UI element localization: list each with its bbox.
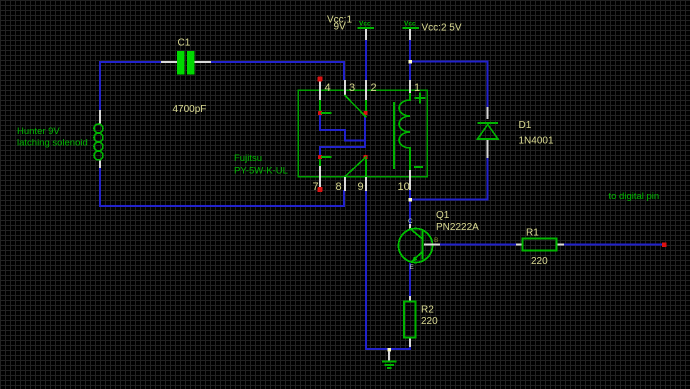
wire relay internal crossover B (pin2 contact to pin7 contact) [320, 114, 365, 156]
relay pin 3 lead [344, 80, 346, 95]
svg-text:PY-5W-K-UL: PY-5W-K-UL [234, 166, 288, 177]
resistor R1 leads [516, 244, 523, 246]
svg-text:10: 10 [398, 181, 410, 193]
wire left vertical down to solenoid [99, 61, 101, 111]
svg-text:Q1: Q1 [436, 210, 450, 221]
svg-text:3: 3 [349, 82, 355, 94]
svg-text:4700pF: 4700pF [173, 104, 207, 115]
svg-text:to digital pin: to digital pin [609, 191, 660, 202]
relay coil minus mark [414, 166, 423, 168]
resistor R1 body [523, 239, 557, 251]
svg-text:C1: C1 [178, 38, 191, 49]
transistor Q1 base lead [424, 244, 440, 246]
svg-text:D1: D1 [519, 120, 532, 131]
relay pin 7 lead [319, 159, 321, 166]
node end marker to digital pin [662, 242, 667, 247]
svg-text:E: E [410, 264, 415, 271]
relay pin 4 unconnected end marker [318, 77, 323, 82]
transistor Q1 base bar [421, 231, 423, 260]
relay coil left terminal line [393, 102, 395, 169]
node junction dot at pin 10 / D1 bottom [408, 198, 412, 202]
relay switch 2 contact dots [318, 155, 322, 159]
wire relay internal crossover A (pin4 contact to pin9 side) [320, 114, 365, 141]
svg-text:R1: R1 [526, 228, 539, 239]
svg-text:Vcc: Vcc [404, 21, 416, 28]
inductor L1 coil loops [94, 124, 103, 133]
wire solenoid bottom to relay pin 8 [100, 167, 344, 206]
svg-text:9V: 9V [334, 22, 347, 33]
relay switch 1 arm (pin 3 to pin 2 contact) [345, 95, 367, 118]
wire Vcc:1 to relay pin 2 [365, 39, 367, 80]
relay pin 9 lead [365, 159, 367, 177]
resistor R2 body [404, 302, 416, 338]
relay coil plus mark [415, 93, 426, 104]
relay pin 8 lead [344, 177, 346, 191]
supply symbol Vcc:2 [409, 29, 411, 41]
capacitor C1 leads [161, 61, 177, 63]
diode D1 cathode bar [478, 122, 499, 124]
relay switch 1 contact dots [318, 111, 322, 115]
svg-text:latching solenoid: latching solenoid [17, 138, 88, 149]
svg-text:Vcc: Vcc [359, 21, 371, 28]
relay coil arcs [399, 93, 410, 170]
wire node at pin1 to diode D1 top [410, 62, 488, 108]
relay pin 4 lead [319, 80, 321, 100]
wire C1 to relay pin 3 [211, 62, 344, 80]
svg-text:2: 2 [371, 82, 377, 94]
relay switch 2 arm (pin 8 to pin 9 contact) [344, 157, 367, 178]
supply symbol Vcc:1 [365, 29, 367, 41]
wire R1 to digital pin [564, 244, 663, 246]
svg-text:4: 4 [325, 82, 331, 94]
wire top-left from solenoid loop to C1 [100, 61, 161, 63]
wire relay pin 9 down to ground rail [365, 190, 367, 350]
node junction dot at pin 1 / D1 branch [408, 60, 412, 64]
capacitor C1 plates [177, 51, 185, 75]
wire R2 bottom to ground rail [366, 347, 410, 349]
transistor Q1 collector diagonal [410, 229, 423, 240]
inductor L1 (Hunter solenoid) leads [99, 110, 101, 124]
relay switch 1 NC stub [321, 112, 332, 114]
diode D1 leads [487, 107, 489, 119]
svg-text:C: C [408, 218, 413, 225]
relay pin 2 lead [365, 80, 367, 100]
diode D1 triangle [478, 125, 499, 140]
svg-text:1N4001: 1N4001 [519, 136, 554, 147]
node junction dot at ground rail [387, 348, 391, 352]
wire Q1 emitter down to R2 [409, 263, 411, 296]
relay U1 box (Fujitsu PY-5W-K-UL) [298, 90, 427, 177]
svg-text:Fujitsu: Fujitsu [234, 153, 262, 164]
svg-text:9: 9 [358, 181, 364, 193]
transistor Q1 collector lead [409, 224, 411, 230]
relay pin 10 lead [409, 170, 411, 190]
wire Vcc:2 to relay pin 1 [409, 39, 411, 80]
svg-text:1: 1 [414, 82, 420, 94]
svg-text:220: 220 [421, 316, 438, 327]
svg-text:R2: R2 [421, 305, 434, 316]
relay pin 7 unconnected end marker [318, 187, 323, 192]
svg-text:B: B [434, 237, 438, 244]
transistor Q1 circle [399, 229, 433, 263]
relay switch 2 NC stub [321, 156, 332, 158]
svg-text:PN2222A: PN2222A [436, 222, 479, 233]
wire Q1 base to R1 [440, 244, 516, 246]
ground symbol [388, 351, 390, 361]
resistor R2 leads [409, 296, 411, 302]
svg-text:Hunter 9V: Hunter 9V [17, 126, 60, 137]
transistor Q1 emitter diagonal with arrow [412, 252, 423, 262]
svg-text:Vcc:2 5V: Vcc:2 5V [422, 23, 462, 34]
wire D1 bottom to pin 10 node [410, 158, 488, 200]
svg-text:220: 220 [531, 256, 548, 267]
relay pin 1 lead [409, 80, 411, 93]
wire pin 10 down to Q1 collector [409, 190, 411, 224]
svg-text:8: 8 [336, 181, 342, 193]
